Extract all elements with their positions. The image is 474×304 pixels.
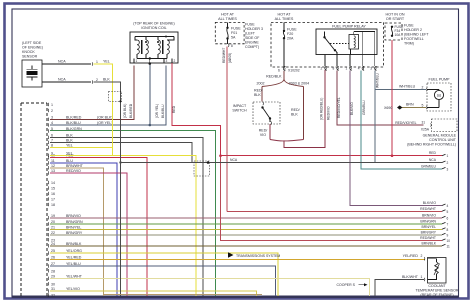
svg-text:SIDE OF: SIDE OF [245, 36, 260, 40]
svg-text:(OR YEL): (OR YEL) [155, 104, 159, 118]
svg-text:27: 27 [51, 262, 55, 266]
ECM pin 21 wire label BRN/YEL [47, 228, 50, 231]
wire RED to general module pin1 [221, 155, 443, 157]
svg-text:F20: F20 [287, 32, 293, 36]
ECM pin 15 (unused) [47, 186, 50, 189]
wire YEL/VIO pin31 down at x=256.4 [50, 291, 256, 296]
transmission system arrow [228, 252, 234, 257]
wire YEL pin8 to knock sensor yellow riser [50, 147, 113, 149]
svg-text:COOPER S: COOPER S [337, 283, 356, 287]
wire GRN/BLU relay to module pin3 [361, 71, 442, 169]
svg-text:BLK: BLK [254, 93, 261, 97]
fuse F01 dashed box [215, 22, 244, 43]
svg-text:HOLDER 3: HOLDER 3 [245, 27, 263, 31]
svg-text:BLK/BLU: BLK/BLU [161, 104, 165, 118]
svg-text:32: 32 [51, 294, 55, 298]
svg-text:2: 2 [321, 67, 323, 71]
svg-text:OR START: OR START [386, 17, 405, 21]
svg-text:8: 8 [447, 228, 449, 232]
ignition coil box [130, 32, 178, 63]
wire RED/WHT to module pin10 [221, 156, 443, 241]
svg-text:20A: 20A [287, 37, 294, 41]
svg-text:IMPACT: IMPACT [233, 104, 247, 108]
svg-text:(AB05): (AB05) [228, 53, 232, 63]
coolant sensor thermistor [428, 259, 437, 262]
svg-text:(OR BLK): (OR BLK) [97, 115, 113, 119]
ECM pin 1 (unused) [47, 103, 50, 106]
svg-text:RED/: RED/ [254, 89, 263, 93]
svg-text:21: 21 [51, 225, 55, 229]
ECM pin 5 wire label BLK/GRN [47, 129, 50, 132]
fuel pump pin 2 [425, 88, 428, 91]
svg-text:BLK: BLK [103, 78, 110, 82]
inline connector on knock sensor wires [109, 92, 122, 102]
wire BLK pin7 to NCA node [50, 142, 192, 162]
svg-text:6: 6 [51, 133, 53, 137]
svg-text:15: 15 [51, 187, 55, 191]
bottom ground rail [12, 296, 459, 298]
svg-text:8: 8 [231, 44, 233, 48]
wire YEL knock sensor down to pin9 wire [94, 64, 113, 155]
svg-text:BRN/VIO: BRN/VIO [66, 214, 81, 218]
svg-text:GRN/BLU: GRN/BLU [362, 100, 366, 115]
svg-text:1: 1 [447, 154, 449, 158]
fuse F34 10A symbol [391, 26, 393, 28]
inline connector on BLK wires x=190-210 [194, 161, 210, 176]
svg-text:ENGINE: ENGINE [245, 41, 259, 45]
svg-text:X10202: X10202 [288, 69, 300, 73]
svg-text:RED/WHT: RED/WHT [420, 207, 436, 211]
svg-text:BRN/WHT: BRN/WHT [66, 164, 84, 168]
svg-text:RED/VIO/YEL: RED/VIO/YEL [395, 121, 416, 125]
svg-text:FUSE: FUSE [404, 24, 414, 28]
svg-text:10A: 10A [395, 33, 402, 37]
svg-text:(BEHIND LEFT: (BEHIND LEFT [404, 33, 429, 37]
ECM pin 6 wire label BLK [47, 136, 50, 139]
svg-text:YEL/ORG: YEL/ORG [66, 249, 82, 253]
svg-text:3: 3 [370, 67, 372, 71]
svg-text:BLU: BLU [66, 159, 73, 163]
svg-text:2: 2 [174, 59, 176, 63]
ECM pin 14 (unused) [47, 181, 50, 184]
relay coil [349, 35, 359, 50]
ECM pin 9 wire label YEL [47, 154, 50, 157]
svg-text:FOOTWELL: FOOTWELL [404, 37, 424, 41]
svg-text:17: 17 [51, 198, 55, 202]
general module dashed box [432, 119, 458, 132]
svg-text:NCA: NCA [230, 158, 238, 162]
svg-text:OF ENGINE): OF ENGINE) [22, 46, 43, 50]
svg-text:HOLDER 2: HOLDER 2 [404, 28, 422, 32]
svg-text:18: 18 [51, 203, 55, 207]
svg-text:RED/VIO: RED/VIO [66, 169, 81, 173]
svg-text:IGNITION COIL: IGNITION COIL [141, 26, 166, 30]
wire YEL pin9 down at x=196 [50, 155, 196, 295]
svg-text:1: 1 [421, 275, 423, 279]
relay pins at fusebox edge [324, 55, 326, 67]
knock sensor pin 2 wire NCA/BLK [42, 81, 91, 83]
svg-text:19: 19 [51, 214, 55, 218]
knock sensor pin 1 wire NCA/YEL [42, 63, 91, 65]
svg-text:YEL: YEL [103, 60, 110, 64]
svg-text:ALL TIMES: ALL TIMES [275, 17, 294, 21]
ECM pin 30 (unused) [47, 282, 50, 285]
svg-text:WHT/BLU: WHT/BLU [376, 73, 380, 88]
knock sensor box [22, 60, 42, 87]
ECM connector X (dashed box, left) [20, 103, 22, 296]
ignition coil internal wires [135, 36, 174, 38]
svg-text:RED/VIO/YEL: RED/VIO/YEL [337, 97, 341, 118]
svg-text:(OR RED/BLU): (OR RED/BLU) [320, 98, 324, 120]
svg-text:CONTROL UNIT: CONTROL UNIT [429, 138, 457, 142]
ECM pin 8 wire label YEL [47, 146, 50, 149]
wire RED from F34 to module pin1 [391, 40, 393, 156]
fuse F34 dashed box [385, 23, 402, 40]
ignition coil common terminal junction [149, 63, 151, 125]
svg-text:11: 11 [51, 159, 55, 163]
svg-text:4: 4 [358, 67, 360, 71]
ECM pin 19 wire label BRN/VIO [47, 216, 50, 219]
svg-text:BRN/GRN: BRN/GRN [66, 220, 83, 224]
svg-text:26: 26 [51, 255, 55, 259]
coolant sensor box [428, 258, 447, 284]
svg-text:NCA: NCA [58, 60, 66, 64]
svg-text:TEMPERATURE SENSOR: TEMPERATURE SENSOR [415, 288, 458, 292]
svg-text:RED/WHT: RED/WHT [222, 48, 226, 63]
wire RED/WHT to module pin5 [227, 210, 442, 212]
connector X10202 [283, 67, 286, 70]
svg-text:TRIM): TRIM) [404, 42, 414, 46]
wire YEL/ORG pin25 down at x=278 [50, 253, 278, 296]
svg-text:GENERAL MODULE: GENERAL MODULE [423, 133, 457, 137]
svg-text:5A: 5A [231, 36, 236, 40]
svg-text:BLK/WHT: BLK/WHT [402, 275, 419, 279]
svg-text:7: 7 [51, 138, 53, 142]
impact switch dashed box [253, 102, 280, 124]
ECM pin 22 wire label BRN/GRY [47, 233, 50, 236]
svg-text:FUSE: FUSE [245, 23, 255, 27]
svg-text:WHT/BLU: WHT/BLU [399, 85, 416, 89]
wire YEL/BLU pin27 down at x=275.6 [50, 266, 276, 296]
svg-text:13: 13 [51, 169, 55, 173]
svg-text:1: 1 [51, 103, 53, 107]
ECM pin 12 wire label BRN/WHT [47, 166, 50, 169]
svg-text:16: 16 [51, 192, 55, 196]
wire RED/BLK 2003-2004 branch [303, 87, 305, 140]
svg-text:30: 30 [51, 282, 55, 286]
wire WHT/BLU relay to fuel pump pin2 and module pin2 [374, 71, 376, 163]
svg-text:YEL/RED: YEL/RED [66, 255, 82, 259]
svg-text:RED/WHT: RED/WHT [420, 236, 436, 240]
svg-text:2: 2 [421, 254, 423, 258]
svg-text:29: 29 [51, 274, 55, 278]
wire BLK/WHT to ground rail [375, 280, 424, 296]
svg-text:HOT AT: HOT AT [221, 13, 235, 17]
svg-text:GRN/BLU: GRN/BLU [421, 164, 437, 168]
svg-text:HOT AT: HOT AT [278, 13, 292, 17]
svg-text:YEL/VIO: YEL/VIO [66, 287, 80, 291]
svg-text:TRANSMISSIONS SYSTEM: TRANSMISSIONS SYSTEM [236, 254, 280, 258]
svg-text:BLK/VIO: BLK/VIO [350, 102, 354, 115]
svg-text:BLK: BLK [66, 138, 73, 142]
svg-text:FUEL PUMP RELAY: FUEL PUMP RELAY [332, 24, 366, 28]
svg-text:BRN/GRY: BRN/GRY [421, 230, 437, 234]
ECM pin 27 wire label YEL/BLU [47, 264, 50, 267]
wire BRN/GRN pin20 to module pin7 [50, 223, 442, 225]
svg-text:4: 4 [447, 204, 449, 208]
ECM pin 10 wire label RED [47, 156, 50, 159]
svg-text:BLK/RED: BLK/RED [66, 115, 82, 119]
svg-text:1: 1 [136, 59, 138, 63]
ECM pin 23 (unused) [47, 238, 50, 241]
ECM pin 4 wire label BLK/BLU [47, 123, 50, 126]
year split bracket 2002 / 2003-2004 [262, 79, 284, 87]
wire BRN/BLK pin24 to module pin11 [50, 245, 442, 247]
svg-text:31: 31 [51, 287, 55, 291]
svg-text:YEL: YEL [66, 144, 73, 148]
wire BRN/VIO pin19 to module pin6 [50, 217, 442, 219]
splice X690 [397, 105, 402, 109]
wire BLK/RED pin3 to ignition coil pin1 [50, 66, 134, 120]
module pin 2 NCA [442, 161, 446, 163]
svg-text:KNOCK: KNOCK [22, 50, 35, 54]
fuse F20 20A symbol [283, 22, 285, 30]
svg-text:NCA: NCA [429, 158, 437, 162]
svg-text:7: 7 [447, 222, 449, 226]
svg-text:YEL/RED: YEL/RED [403, 254, 419, 258]
svg-text:BLK: BLK [291, 113, 298, 117]
wire BLK pin6 down at x=203.7 [50, 137, 203, 295]
ECM pin 18 (unused) [47, 203, 50, 206]
wire YEL/WHT pin29 down at x=369.5 [50, 278, 370, 296]
wire RED pin10 down at x=147 [50, 158, 147, 296]
svg-text:YEL/BLU: YEL/BLU [66, 262, 81, 266]
wire RED/VIO merged to fuel pump relay pin2 [284, 70, 325, 148]
ECM pin 25 wire label YEL/ORG [47, 251, 50, 254]
svg-text:FUSE: FUSE [287, 28, 297, 32]
svg-text:3: 3 [51, 115, 53, 119]
wire RED ignition coil pin2 down [172, 63, 221, 156]
ECM pin 20 wire label BRN/GRN [47, 222, 50, 225]
svg-text:FUSE: FUSE [231, 27, 241, 31]
svg-text:BRN/BLK: BRN/BLK [66, 242, 82, 246]
ECM pin 7 wire label BLK [47, 141, 50, 144]
svg-text:BRN/YEL: BRN/YEL [421, 225, 436, 229]
svg-text:6: 6 [447, 216, 449, 220]
ECM pin 2 (unused) [47, 109, 50, 112]
ECM pin 16 (unused) [47, 192, 50, 195]
knock sensor piezo element [27, 71, 38, 75]
wire RED/WHT from F01 down to module pin5 and pin10 [227, 39, 229, 44]
wire BLK/BLU pin4 to ignition coil pin3 [50, 66, 166, 126]
wire RED/BLK 2002 branch to impact switch [261, 87, 263, 102]
svg-text:(BEHIND RIGHT FOOTWELL): (BEHIND RIGHT FOOTWELL) [407, 142, 456, 146]
svg-text:1: 1 [96, 60, 98, 64]
svg-text:2002: 2002 [257, 82, 265, 86]
svg-text:ALL TIMES: ALL TIMES [218, 17, 237, 21]
fuel pump motor symbol [434, 90, 443, 99]
svg-text:24: 24 [51, 242, 55, 246]
wire from F20 to X10202 [283, 38, 285, 67]
svg-text:RED/VIO: RED/VIO [327, 106, 331, 120]
fuse F01 5A symbol [227, 22, 229, 27]
ECM pin 17 (unused) [47, 197, 50, 200]
wire BRN/WHT pin12 down at x=104 [50, 168, 104, 296]
svg-text:2: 2 [96, 78, 98, 82]
wire NCA to module pin2 [121, 162, 443, 164]
engine fusebox dashed enclosure [271, 22, 384, 67]
svg-text:BRN/GRN: BRN/GRN [420, 219, 436, 223]
svg-text:3: 3 [447, 168, 449, 172]
ground bus BRN/WHT above rail [104, 294, 263, 296]
ignition coil primary/secondary windings [137, 40, 139, 54]
svg-text:2: 2 [447, 161, 449, 165]
ignition coil terminals [133, 59, 135, 64]
svg-text:X25A: X25A [421, 128, 430, 132]
svg-text:28: 28 [51, 269, 55, 273]
svg-text:BLK: BLK [66, 133, 73, 137]
wire BRN/YEL pin21 to module pin8 [50, 228, 442, 230]
svg-text:22: 22 [51, 231, 55, 235]
svg-text:(LEFT: (LEFT [245, 32, 256, 36]
ECM pin 11 wire label BLU [47, 161, 50, 164]
svg-text:RED/: RED/ [259, 129, 268, 133]
svg-text:4: 4 [51, 121, 53, 125]
svg-text:BRN/VIO: BRN/VIO [422, 213, 436, 217]
wire BLU pin11 down at x=116.5 [50, 163, 117, 296]
svg-text:RED: RED [429, 151, 437, 155]
svg-text:6: 6 [278, 69, 280, 73]
svg-text:SENSOR: SENSOR [22, 55, 38, 59]
svg-text:5: 5 [422, 103, 424, 107]
svg-text:3: 3 [166, 59, 168, 63]
svg-text:COMPT): COMPT) [245, 45, 259, 49]
ECM pin 13 wire label RED/VIO [47, 171, 50, 174]
svg-text:RED: RED [172, 105, 176, 113]
svg-text:2: 2 [51, 109, 53, 113]
svg-text:BRN: BRN [406, 102, 414, 106]
ECM pin 31 wire label YEL/VIO [47, 289, 50, 292]
svg-text:10: 10 [447, 239, 451, 243]
wire RED/VIO pin13 down at x=126 [50, 173, 127, 296]
relay mechanical link (dashed) [330, 43, 349, 45]
svg-text:8: 8 [333, 67, 335, 71]
wire RED/VIO/YEL relay to module pin31 [337, 71, 424, 126]
wire BLK knock sensor down at x=121 [94, 82, 121, 296]
svg-text:VIO: VIO [260, 133, 266, 137]
wire BRN/GRY pin22 to module pin9 [50, 234, 442, 236]
ECM pin 26 wire label YEL/RED [47, 258, 50, 261]
svg-text:BRN/BLK: BRN/BLK [421, 241, 436, 245]
fuel pump pin 5 / ground wire BRN from X690 [425, 106, 428, 109]
svg-text:12: 12 [51, 164, 55, 168]
svg-text:YEL/WHT: YEL/WHT [66, 274, 83, 278]
impact switch contacts [262, 102, 265, 105]
svg-text:31: 31 [422, 120, 426, 124]
svg-text:M: M [437, 93, 441, 98]
wire YEL/RED pin26 to coolant sensor pin2 [50, 258, 425, 260]
ECM pin 3 wire label BLK/RED [47, 118, 50, 121]
svg-text:(REAR OF ENGINE): (REAR OF ENGINE) [420, 293, 453, 297]
relay switch contact [324, 32, 326, 38]
svg-text:X690: X690 [384, 106, 392, 110]
svg-text:14: 14 [51, 181, 55, 185]
svg-text:2: 2 [422, 85, 424, 89]
svg-text:FUEL PUMP: FUEL PUMP [429, 78, 451, 82]
svg-text:(TOP REAR OF ENGINE): (TOP REAR OF ENGINE) [133, 22, 174, 26]
svg-text:RED/: RED/ [291, 108, 300, 112]
svg-text:(OR BLK): (OR BLK) [123, 104, 127, 118]
svg-text:20: 20 [51, 220, 55, 224]
svg-text:F01: F01 [231, 31, 237, 35]
ECM pin 24 wire label BRN/BLK [47, 244, 50, 247]
svg-text:11: 11 [447, 244, 451, 248]
wire BLK/VIO relay to module pin4 [350, 71, 442, 206]
svg-text:BRN/GRY: BRN/GRY [66, 231, 83, 235]
svg-text:BLK/BLU: BLK/BLU [66, 121, 81, 125]
svg-text:(LEFT SIDE: (LEFT SIDE [22, 41, 42, 45]
svg-text:1: 1 [346, 67, 348, 71]
svg-text:SWITCH: SWITCH [232, 109, 247, 113]
svg-text:RED/BLK: RED/BLK [266, 75, 282, 79]
svg-text:5: 5 [447, 210, 449, 214]
year merge bracket [270, 140, 284, 141]
svg-text:HOT IN ON: HOT IN ON [386, 13, 405, 17]
ignition coil cores [141, 40, 143, 54]
svg-text:8: 8 [51, 144, 53, 148]
svg-text:(OR YEL): (OR YEL) [97, 121, 113, 125]
fuel pump relay box [316, 29, 377, 55]
ECM pin 28 (unused) [47, 269, 50, 272]
ECM pin 29 wire label YEL/WHT [47, 277, 50, 280]
svg-text:NCA: NCA [58, 78, 66, 82]
svg-text:BRN/YEL: BRN/YEL [66, 225, 81, 229]
wire BLK/GRN pin5 down at x=214 [50, 131, 216, 296]
ECM pin 32 (unused) [47, 293, 50, 296]
svg-text:COOLANT: COOLANT [428, 284, 446, 288]
svg-text:2003 & 2004: 2003 & 2004 [289, 82, 309, 86]
fuel pump dashed box [427, 83, 451, 111]
svg-text:9: 9 [447, 233, 449, 237]
wire RED/VIO impact switch output [269, 124, 271, 140]
svg-text:BLK/VIO: BLK/VIO [423, 201, 437, 205]
svg-text:BLK/RED: BLK/RED [129, 103, 133, 118]
svg-text:25: 25 [51, 249, 55, 253]
